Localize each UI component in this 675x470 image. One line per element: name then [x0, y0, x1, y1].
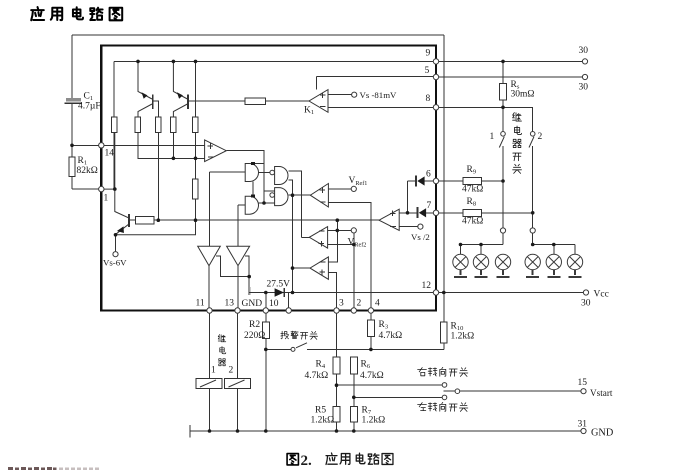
svg-text:7: 7 [427, 201, 432, 211]
svg-text:30: 30 [581, 299, 591, 309]
svg-text:4.7kΩ: 4.7kΩ [360, 371, 384, 381]
svg-text:2.: 2. [301, 453, 313, 469]
svg-text:14: 14 [105, 149, 115, 159]
svg-text:3: 3 [339, 299, 344, 309]
svg-text:Vs -81mV: Vs -81mV [360, 90, 398, 100]
svg-text:4.7µF: 4.7µF [78, 102, 101, 112]
svg-text:2: 2 [357, 299, 362, 309]
svg-text:R9: R9 [467, 165, 477, 176]
svg-text:R4: R4 [316, 360, 326, 371]
svg-text:R7: R7 [362, 406, 372, 417]
svg-text:1.2kΩ: 1.2kΩ [362, 416, 386, 426]
svg-text:R1: R1 [78, 156, 88, 167]
svg-text:4: 4 [375, 299, 380, 309]
svg-text:5: 5 [425, 66, 430, 76]
svg-text:1.2kΩ: 1.2kΩ [451, 332, 475, 342]
svg-text:1: 1 [104, 194, 109, 204]
svg-text:Vs /2: Vs /2 [411, 232, 430, 242]
svg-text:K1: K1 [304, 106, 314, 117]
svg-text:R6: R6 [361, 360, 371, 371]
svg-text:82kΩ: 82kΩ [77, 166, 98, 176]
svg-text:4.7kΩ: 4.7kΩ [305, 371, 329, 381]
svg-text:C1: C1 [84, 92, 94, 103]
svg-text:15: 15 [578, 378, 588, 388]
svg-text:R3: R3 [379, 320, 389, 331]
svg-text:8: 8 [426, 94, 431, 104]
svg-text:GND: GND [591, 428, 614, 439]
svg-text:13: 13 [225, 299, 235, 309]
svg-text:1: 1 [211, 366, 216, 376]
svg-text:6: 6 [426, 170, 431, 180]
svg-text:VRef2: VRef2 [348, 238, 367, 249]
svg-text:30mΩ: 30mΩ [511, 90, 535, 100]
svg-text:R5: R5 [315, 406, 326, 416]
svg-text:10: 10 [269, 299, 279, 309]
svg-text:220Ω: 220Ω [244, 331, 265, 341]
svg-text:1.2kΩ: 1.2kΩ [311, 416, 335, 426]
svg-text:47kΩ: 47kΩ [462, 185, 483, 195]
svg-text:VRef1: VRef1 [349, 176, 368, 187]
svg-text:4.7kΩ: 4.7kΩ [379, 331, 403, 341]
svg-text:1: 1 [490, 132, 495, 142]
svg-text:11: 11 [196, 299, 205, 309]
svg-text:R2: R2 [249, 320, 260, 330]
svg-text:27.5V: 27.5V [267, 280, 291, 290]
svg-text:GND: GND [242, 299, 263, 309]
svg-text:R10: R10 [451, 322, 464, 333]
svg-text:2: 2 [538, 132, 543, 142]
svg-text:9: 9 [426, 49, 431, 59]
svg-text:Vs-6V: Vs-6V [103, 257, 127, 267]
svg-text:30: 30 [579, 83, 589, 93]
svg-text:R8: R8 [467, 197, 477, 208]
svg-text:30: 30 [579, 46, 589, 56]
svg-text:Vcc: Vcc [594, 290, 609, 300]
svg-text:47kΩ: 47kΩ [462, 217, 483, 227]
svg-text:Vstart: Vstart [590, 388, 613, 398]
svg-text:12: 12 [422, 281, 432, 291]
svg-text:2: 2 [229, 366, 234, 376]
svg-text:31: 31 [578, 420, 588, 430]
